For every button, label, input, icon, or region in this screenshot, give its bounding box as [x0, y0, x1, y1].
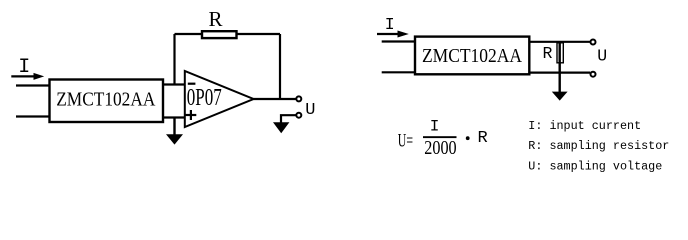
svg-text:R: R: [208, 7, 222, 31]
svg-text:R: R: [478, 129, 488, 148]
wire lower terminal to ground (left circuit): [281, 115, 296, 123]
formula multiplication dot: [466, 136, 470, 140]
svg-text:0P07: 0P07: [187, 85, 222, 111]
svg-text:U: U: [597, 47, 607, 66]
wire secondary-top to op-amp inverting input: [163, 83, 185, 85]
terminal output positive (left circuit): [296, 96, 301, 101]
svg-text:ZMCT102AA: ZMCT102AA: [56, 89, 155, 111]
wire secondary-top to output terminal (right circuit): [529, 41, 590, 43]
current transformer T2 ZMCT102AA (right circuit): [415, 37, 529, 75]
svg-text:U=: U=: [398, 130, 413, 151]
resistor R2 (sampling): [557, 43, 563, 63]
wire feedback left vertical: [173, 34, 175, 85]
plus sign (non-inverting input marker): [185, 114, 196, 116]
svg-text:I: I: [430, 118, 440, 136]
current direction arrow (right circuit): [377, 31, 409, 38]
ground (output reference, left circuit): [273, 122, 289, 133]
wire through sampling resistor (vertical): [559, 42, 561, 93]
wire op-amp output: [254, 98, 296, 100]
minus sign (inverting input marker): [188, 83, 196, 85]
wire secondary-bottom to output terminal (right circuit): [529, 71, 590, 73]
svg-text:U: sampling voltage: U: sampling voltage: [528, 159, 662, 173]
wire primary-bottom input (right circuit): [382, 71, 415, 73]
wire primary-top input (left circuit): [16, 84, 49, 86]
op-amp U1 0P07: [185, 71, 254, 127]
svg-text:I: input current: I: input current: [528, 119, 641, 133]
wire feedback top horizontal: [175, 33, 281, 35]
ground (on non-inverting input wire): [166, 118, 183, 145]
ground (right circuit): [552, 92, 568, 101]
wire primary-top input (right circuit): [382, 40, 415, 42]
svg-text:ZMCT102AA: ZMCT102AA: [422, 45, 522, 67]
svg-text:R: sampling resistor: R: sampling resistor: [528, 139, 669, 153]
wire secondary-bottom to op-amp non-inverting input: [163, 116, 185, 118]
current direction arrow (left circuit): [11, 73, 44, 80]
terminal output negative (right circuit): [591, 72, 596, 77]
terminal output negative (left circuit): [296, 113, 301, 118]
formula fraction bar: [423, 136, 457, 138]
svg-text:I: I: [385, 15, 395, 34]
terminal output positive (right circuit): [591, 40, 596, 45]
svg-text:U: U: [305, 101, 315, 120]
current transformer T1 ZMCT102AA (left circuit): [50, 80, 164, 123]
wire primary-bottom input (left circuit): [16, 115, 49, 117]
wire feedback right vertical: [279, 34, 281, 99]
resistor R1 (feedback): [202, 31, 237, 38]
svg-text:2000: 2000: [424, 137, 456, 159]
svg-text:R: R: [543, 44, 553, 63]
